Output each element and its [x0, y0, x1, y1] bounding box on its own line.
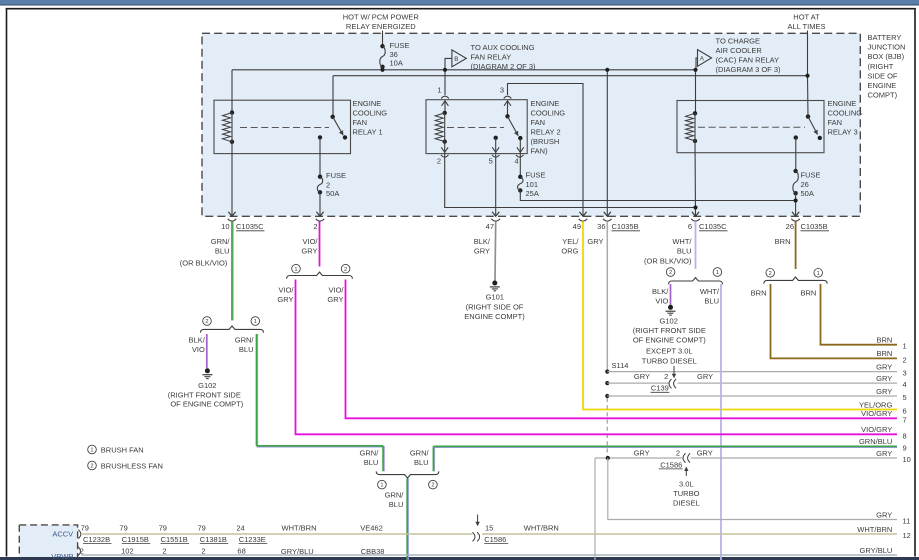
svg-text:2: 2	[676, 448, 680, 457]
svg-text:DIESEL: DIESEL	[673, 498, 700, 507]
relay2 switch contact pin5	[494, 136, 498, 140]
connector cups below BJB edge	[228, 219, 237, 221]
svg-text:2: 2	[313, 222, 317, 231]
wire bus1 down to relay1 coil	[231, 70, 233, 113]
svg-text:1: 1	[90, 448, 93, 454]
relay3 coil	[693, 111, 697, 115]
svg-text:EXCEPT 3.0L: EXCEPT 3.0L	[646, 347, 693, 356]
wire from PCM power down to fuse 36	[382, 31, 384, 47]
svg-text:(RIGHT: (RIGHT	[868, 62, 894, 71]
svg-text:B: B	[454, 56, 458, 63]
svg-text:VIO/GRY: VIO/GRY	[861, 409, 892, 418]
svg-text:BRN: BRN	[775, 237, 791, 246]
svg-text:C139: C139	[651, 384, 669, 393]
relay2 switch	[505, 114, 509, 118]
svg-text:ENGINE COMPT): ENGINE COMPT)	[464, 312, 525, 321]
bottom dark bar	[0, 557, 919, 560]
svg-text:VIO/: VIO/	[278, 286, 294, 295]
wire GRY from pin 36 to splice S114	[606, 221, 608, 371]
relay U1 ENGINE COOLING FAN RELAY 1 box	[214, 100, 351, 153]
svg-text:1: 1	[903, 342, 907, 351]
svg-text:2: 2	[431, 483, 434, 489]
svg-text:GRN/: GRN/	[235, 335, 255, 344]
svg-text:GRN/: GRN/	[385, 491, 405, 500]
svg-text:GRY: GRY	[634, 448, 650, 457]
wire relay3 switch feed	[807, 76, 810, 117]
wire WHT/BLU from pin 6 down to split	[695, 221, 697, 269]
svg-text:2: 2	[344, 267, 347, 273]
svg-text:BLK/: BLK/	[189, 335, 206, 344]
svg-text:GRY: GRY	[587, 237, 603, 246]
svg-text:(CAC) FAN RELAY: (CAC) FAN RELAY	[716, 56, 780, 65]
svg-text:50A: 50A	[801, 189, 814, 198]
svg-text:BRN: BRN	[876, 336, 892, 345]
wire BRN row 2 to right edge	[771, 284, 898, 358]
VPWR pin bracket	[78, 547, 81, 556]
svg-text:C1915B: C1915B	[122, 535, 149, 544]
wire GRN/BLU merged drop to bottom	[407, 478, 409, 560]
wire VIO/GRY from pin 2	[319, 221, 321, 266]
wire GRN/BLU branch down and right to merge	[257, 334, 259, 446]
svg-text:2: 2	[437, 157, 441, 166]
svg-text:S114: S114	[612, 361, 629, 370]
relay1 switch	[331, 115, 335, 119]
svg-text:GRY: GRY	[876, 387, 892, 396]
svg-text:BLK/: BLK/	[474, 237, 491, 246]
svg-text:ALL TIMES: ALL TIMES	[788, 22, 826, 31]
wire GRY row 4 with inline connector C139	[607, 382, 669, 384]
relay1 dashed armature link	[240, 127, 329, 129]
legend 1 BRUSH FAN	[88, 445, 97, 454]
svg-text:15: 15	[485, 523, 493, 532]
svg-text:(DIAGRAM 3 OF 3): (DIAGRAM 3 OF 3)	[716, 65, 782, 74]
svg-text:C1035B: C1035B	[612, 222, 639, 231]
svg-text:49: 49	[573, 222, 581, 231]
svg-text:5: 5	[903, 393, 907, 402]
svg-text:1: 1	[380, 483, 383, 489]
svg-text:BRN: BRN	[751, 288, 767, 297]
svg-text:24: 24	[236, 523, 244, 532]
wire relay2 pin4 down to fuse 101	[519, 138, 521, 177]
svg-text:GRN/: GRN/	[360, 448, 380, 457]
svg-text:BRUSH FAN: BRUSH FAN	[101, 445, 144, 454]
svg-text:VIO: VIO	[192, 345, 205, 354]
svg-text:COOLING: COOLING	[353, 109, 388, 118]
svg-text:BRN: BRN	[876, 349, 892, 358]
svg-text:79: 79	[159, 523, 167, 532]
svg-text:2: 2	[80, 546, 84, 555]
fuse F101 (FUSE 101 25A)	[518, 175, 522, 179]
svg-text:OF ENGINE COMPT): OF ENGINE COMPT)	[633, 335, 706, 344]
svg-text:25A: 25A	[526, 189, 539, 198]
svg-text:10A: 10A	[390, 59, 403, 68]
svg-text:GRY: GRY	[474, 247, 490, 256]
svg-text:(RIGHT FRONT SIDE: (RIGHT FRONT SIDE	[633, 326, 706, 335]
ground G102 (right)	[668, 305, 673, 310]
svg-text:1: 1	[437, 86, 441, 95]
svg-text:BLU: BLU	[677, 247, 692, 256]
svg-text:SIDE OF: SIDE OF	[868, 71, 898, 80]
wire VIO/GRY row 7 to right edge	[346, 280, 898, 419]
wire BLK/GRY from pin 47 to G101	[494, 221, 497, 280]
svg-text:2: 2	[90, 464, 93, 470]
svg-text:102: 102	[121, 546, 134, 555]
svg-text:VIO/: VIO/	[328, 286, 344, 295]
fuse F2 (FUSE 2 50A)	[318, 175, 322, 179]
relay3 dashed armature link	[698, 126, 805, 128]
svg-text:GRY: GRY	[876, 374, 892, 383]
connector C139	[669, 379, 672, 388]
svg-text:1: 1	[716, 270, 719, 276]
svg-text:79: 79	[198, 523, 206, 532]
svg-text:ORG: ORG	[561, 247, 578, 256]
svg-text:11: 11	[903, 517, 911, 526]
svg-text:9: 9	[903, 443, 907, 452]
wire gray drop from bus1 to pin 36	[606, 70, 608, 217]
svg-text:4: 4	[903, 380, 907, 389]
svg-text:GRN/: GRN/	[211, 237, 231, 246]
fuse F36 (FUSE 36 10A)	[380, 44, 384, 48]
bus wire from fuse 36 (y=69.8)	[232, 69, 696, 71]
svg-text:FAN: FAN	[531, 118, 546, 127]
svg-text:GRY: GRY	[277, 295, 293, 304]
svg-text:C1035B: C1035B	[801, 222, 828, 231]
wire bus1 down to relay2 pin 1	[444, 70, 446, 95]
svg-text:1: 1	[817, 271, 820, 277]
svg-text:(RIGHT SIDE OF: (RIGHT SIDE OF	[466, 302, 524, 311]
svg-text:OF ENGINE COMPT): OF ENGINE COMPT)	[170, 399, 243, 408]
svg-text:5: 5	[489, 157, 493, 166]
svg-text:ENGINE: ENGINE	[828, 99, 857, 108]
ACCV connector box	[19, 525, 77, 560]
svg-text:C1233E: C1233E	[239, 535, 266, 544]
connector C1586 on row 12	[473, 532, 476, 541]
svg-text:RELAY 3: RELAY 3	[828, 128, 858, 137]
wire relay3 switch to fuse 26	[795, 138, 797, 171]
svg-text:HOT W/ PCM POWER: HOT W/ PCM POWER	[343, 12, 420, 21]
svg-text:BLU: BLU	[239, 345, 254, 354]
svg-text:VIO/GRY: VIO/GRY	[861, 425, 892, 434]
svg-text:BOX (BJB): BOX (BJB)	[868, 52, 905, 61]
svg-text:(OR BLK/VIO): (OR BLK/VIO)	[644, 257, 692, 266]
wire VIO/GRY row 8 to right edge	[296, 280, 898, 435]
relay U3 ENGINE COOLING FAN RELAY 3 box	[677, 101, 824, 153]
svg-text:3: 3	[903, 369, 907, 378]
svg-text:6: 6	[903, 407, 907, 416]
svg-text:GRN/: GRN/	[410, 448, 430, 457]
exit arrows at BJB bottom edge	[228, 212, 235, 217]
relay1 switch output contact	[318, 135, 322, 139]
svg-text:2: 2	[205, 319, 208, 325]
svg-text:FAN RELAY: FAN RELAY	[471, 53, 512, 62]
wire WHT/BLU long drop to bottom	[720, 284, 722, 560]
svg-text:HOT AT: HOT AT	[793, 12, 820, 21]
wire GRY row 3 to right edge	[607, 371, 897, 373]
svg-text:AIR COOLER: AIR COOLER	[716, 46, 763, 55]
svg-text:VPWR: VPWR	[51, 552, 74, 560]
wire BRN from pin 26 down to split	[795, 221, 797, 269]
relay1 coil	[230, 110, 234, 114]
svg-text:YEL/ORG: YEL/ORG	[859, 400, 893, 409]
svg-text:WHT/: WHT/	[672, 237, 692, 246]
svg-text:GRY: GRY	[876, 362, 892, 371]
svg-text:36: 36	[597, 222, 605, 231]
svg-text:50A: 50A	[326, 189, 339, 198]
svg-text:1: 1	[294, 267, 297, 273]
svg-text:C1381B: C1381B	[200, 535, 227, 544]
svg-text:2: 2	[664, 372, 668, 381]
svg-text:C1035C: C1035C	[699, 222, 727, 231]
svg-text:BLU: BLU	[364, 458, 379, 467]
fuse F26 (FUSE 26 50A)	[793, 169, 797, 173]
battery junction box (BJB) dashed enclosure	[202, 33, 860, 216]
svg-text:(OR BLK/VIO): (OR BLK/VIO)	[180, 259, 228, 268]
relay2 dashed armature link	[447, 127, 504, 129]
svg-text:TO CHARGE: TO CHARGE	[716, 37, 760, 46]
svg-text:JUNCTION: JUNCTION	[868, 43, 906, 52]
brace split BRN	[764, 277, 827, 284]
svg-text:GRY: GRY	[876, 510, 892, 519]
svg-text:FAN): FAN)	[531, 147, 549, 156]
svg-text:C1586: C1586	[660, 460, 682, 469]
svg-text:CBB38: CBB38	[361, 547, 385, 556]
window top bar	[0, 0, 919, 4]
page frame border	[6, 8, 8, 556]
svg-text:C1232B: C1232B	[83, 535, 110, 544]
svg-text:TURBO DIESEL: TURBO DIESEL	[642, 356, 697, 365]
connector C1586 (3.0L turbo diesel)	[683, 453, 686, 462]
wire GRY from S114 chain down to row 11	[608, 458, 897, 520]
svg-text:BRN: BRN	[800, 288, 816, 297]
svg-text:3.0L: 3.0L	[679, 479, 694, 488]
svg-text:ENGINE: ENGINE	[868, 81, 897, 90]
svg-text:2: 2	[769, 271, 772, 277]
svg-text:4: 4	[515, 157, 519, 166]
junction dots on buses and bottom links	[380, 68, 384, 72]
svg-text:26: 26	[801, 180, 809, 189]
wire GRY row 10 with connector C1586	[595, 457, 682, 459]
svg-text:GRY: GRY	[697, 372, 713, 381]
svg-text:79: 79	[119, 523, 127, 532]
wire GRY row 5 to right edge	[607, 395, 897, 397]
wire YEL/ORG from pin 49 to right edge row 6	[583, 221, 897, 409]
svg-text:2: 2	[162, 546, 166, 555]
svg-text:WHT/BRN: WHT/BRN	[282, 523, 317, 532]
wire GRY dashed continuation of S114	[606, 398, 608, 456]
svg-text:BLU: BLU	[389, 500, 404, 509]
svg-text:(BRUSH: (BRUSH	[531, 137, 560, 146]
wire GRN/BLU from pin 10	[232, 221, 234, 320]
ACCV pin bracket	[78, 530, 81, 539]
wire BLK/VIO to G102 right	[670, 284, 672, 305]
relay3 switch contact output	[794, 135, 798, 139]
svg-text:VIO: VIO	[655, 297, 668, 306]
svg-text:YEL/: YEL/	[562, 237, 579, 246]
svg-text:FUSE: FUSE	[390, 41, 410, 50]
ground G101	[492, 281, 497, 286]
bus wire hot-at-all-times (y=75.7)	[333, 75, 808, 77]
svg-text:WHT/BRN: WHT/BRN	[524, 523, 559, 532]
svg-text:47: 47	[486, 222, 494, 231]
svg-text:10: 10	[903, 455, 911, 464]
svg-text:COMPT): COMPT)	[868, 91, 898, 100]
svg-text:G101: G101	[486, 293, 504, 302]
wire GRY drop from row10 to bottom	[594, 458, 596, 556]
brace split GRN/BLU from pin 10	[201, 326, 264, 333]
wire relay1 coil to pin 10	[231, 142, 233, 217]
legend 2 BRUSHLESS FAN	[88, 461, 97, 470]
svg-text:RELAY 2: RELAY 2	[531, 128, 561, 137]
svg-text:FUSE: FUSE	[526, 171, 546, 180]
svg-text:GRN/BLU: GRN/BLU	[859, 437, 892, 446]
svg-text:GRY/BLU: GRY/BLU	[281, 547, 314, 556]
brace split VIO/GRY from pin 2	[287, 272, 353, 279]
svg-text:TO AUX COOLING: TO AUX COOLING	[471, 43, 535, 52]
svg-text:GRY: GRY	[634, 372, 650, 381]
svg-text:BLK/: BLK/	[652, 287, 669, 296]
svg-text:6: 6	[688, 222, 692, 231]
svg-text:101: 101	[526, 180, 539, 189]
wire relay3 coil down to pin 6 exit	[694, 141, 697, 216]
brace merge GRN/BLU	[376, 471, 439, 478]
relay3 switch	[806, 114, 810, 118]
svg-text:WHT/: WHT/	[700, 287, 720, 296]
svg-text:COOLING: COOLING	[531, 109, 566, 118]
wire fuse101 to fuse26 junction	[520, 191, 795, 201]
wire bus1 to relay3 coil	[695, 70, 697, 114]
svg-text:2: 2	[669, 270, 672, 276]
wire HOT AT ALL TIMES down	[807, 31, 809, 76]
svg-text:GRY/BLU: GRY/BLU	[860, 546, 893, 555]
wire drops crossing bottom bar	[407, 556, 409, 560]
svg-text:(RIGHT FRONT SIDE: (RIGHT FRONT SIDE	[168, 390, 241, 399]
off-page connector triangle B (TO AUX COOLING FAN RELAY)	[445, 58, 452, 69]
svg-text:FUSE: FUSE	[801, 171, 821, 180]
svg-text:RELAY 1: RELAY 1	[353, 128, 383, 137]
svg-text:C1551B: C1551B	[161, 535, 188, 544]
svg-text:ENGINE: ENGINE	[531, 99, 560, 108]
svg-text:GRY: GRY	[697, 448, 713, 457]
svg-text:ACCV: ACCV	[52, 529, 73, 538]
svg-text:WHT/BRN: WHT/BRN	[857, 525, 892, 534]
svg-text:TURBO: TURBO	[673, 489, 699, 498]
svg-text:GRY: GRY	[301, 247, 317, 256]
svg-text:C1035C: C1035C	[236, 222, 264, 231]
svg-text:12: 12	[903, 531, 911, 540]
brace split WHT/BLU	[669, 278, 723, 285]
svg-text:COOLING: COOLING	[828, 109, 863, 118]
wire GRN/BLU row 9 from right edge to merge	[433, 447, 897, 449]
off-page connector triangle A (TO CHARGE AIR COOLER (CAC) FAN RELAY)	[696, 58, 698, 70]
svg-text:79: 79	[81, 523, 89, 532]
svg-text:VIO/: VIO/	[302, 237, 318, 246]
svg-text:68: 68	[237, 546, 245, 555]
svg-text:1: 1	[254, 319, 257, 325]
svg-text:ENGINE: ENGINE	[353, 99, 382, 108]
svg-text:BATTERY: BATTERY	[868, 33, 902, 42]
svg-text:2: 2	[201, 546, 205, 555]
svg-text:C1586: C1586	[484, 535, 506, 544]
svg-text:VE462: VE462	[360, 523, 383, 532]
wire fuse26 to pin 26 exit	[795, 193, 797, 216]
svg-text:26: 26	[786, 222, 794, 231]
svg-text:G102: G102	[660, 317, 678, 326]
wire relay2 pin2 (coil) down and right to pin6 node	[445, 142, 696, 208]
wire BLK/VIO to G102 left	[206, 334, 208, 368]
wire relay2 pin5 down to 47 exit	[495, 138, 497, 217]
svg-text:BLU: BLU	[414, 458, 429, 467]
svg-text:BLU: BLU	[704, 297, 719, 306]
wire GRY/BLU row 13	[81, 554, 897, 556]
svg-text:GRY: GRY	[327, 295, 343, 304]
svg-text:BLU: BLU	[215, 247, 230, 256]
svg-text:FUSE: FUSE	[326, 171, 346, 180]
svg-text:7: 7	[903, 415, 907, 424]
ground G102 (left)	[205, 368, 210, 373]
wire bus2 down to relay1 switch	[332, 76, 334, 117]
wire relay2 pin3 loop to pin 49 drop	[508, 84, 584, 217]
svg-text:8: 8	[903, 431, 907, 440]
wire BRN row 1 to right edge	[821, 284, 898, 345]
svg-text:10: 10	[221, 222, 229, 231]
wire WHT/BRN row 12	[81, 533, 473, 535]
svg-text:3: 3	[500, 86, 504, 95]
svg-text:FAN: FAN	[828, 118, 843, 127]
svg-text:RELAY ENERGIZED: RELAY ENERGIZED	[346, 22, 416, 31]
svg-text:BRUSHLESS FAN: BRUSHLESS FAN	[101, 461, 163, 470]
svg-text:(DIAGRAM 2 OF 3): (DIAGRAM 2 OF 3)	[471, 62, 537, 71]
relay U2 ENGINE COOLING FAN RELAY 2 (BRUSH FAN) box	[426, 100, 527, 154]
wire fuse2 to pin 2 exit	[319, 192, 321, 216]
relay2 coil	[443, 111, 447, 115]
svg-text:G102: G102	[198, 381, 216, 390]
svg-text:GRY: GRY	[876, 449, 892, 458]
wire relay1 switch to fuse 2	[319, 137, 321, 176]
svg-text:2: 2	[903, 355, 907, 364]
svg-text:FAN: FAN	[353, 118, 368, 127]
